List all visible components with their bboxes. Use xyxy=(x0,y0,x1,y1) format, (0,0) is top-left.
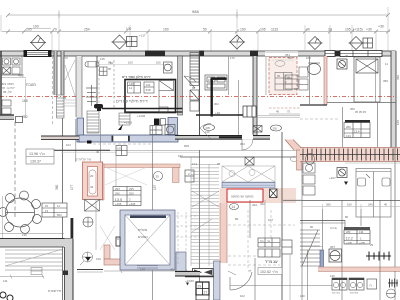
central void X hatch xyxy=(222,166,275,182)
svg-text:240: 240 xyxy=(368,203,373,207)
svg-text:304: 304 xyxy=(214,102,219,106)
corridor line y152 light xyxy=(61,151,200,153)
bathroom numbers xyxy=(129,82,151,92)
black arrow symbol xyxy=(118,124,123,130)
window W2 xyxy=(325,51,335,57)
svg-text:13.5: 13.5 xyxy=(115,197,124,202)
pink wall column center xyxy=(220,203,227,263)
small oval label corridor xyxy=(291,157,298,162)
bedroom circle fixture xyxy=(154,172,163,181)
elevation marker diamond D2 xyxy=(112,35,128,49)
balcony interior line xyxy=(272,59,294,61)
fixtures right cluster x285-300 xyxy=(285,67,308,90)
svg-text:33: 33 xyxy=(345,54,349,58)
interior vertical wall x97 xyxy=(96,56,98,108)
corridor line y150 right part xyxy=(110,150,302,152)
left interior wall vertical band B xyxy=(61,51,64,300)
svg-text:350: 350 xyxy=(350,107,355,111)
annex room side lines xyxy=(75,119,77,162)
level marker +13.89 xyxy=(185,279,194,286)
svg-text:פיר עליית יצ: פיר עליית יצ xyxy=(75,158,91,162)
svg-text:11: 11 xyxy=(385,62,388,66)
door gap in blue bottom wall xyxy=(113,136,128,142)
svg-text:מטבח: מטבח xyxy=(26,83,36,87)
svg-text:280: 280 xyxy=(346,230,351,234)
comb fixture bottom right edge xyxy=(388,279,398,288)
dark wall segment y136-139 left xyxy=(41,136,79,140)
door gap in wall y135 xyxy=(242,135,253,140)
svg-text:360: 360 xyxy=(55,184,59,190)
beds bottom right xyxy=(356,169,391,218)
dim bubble 14 xyxy=(230,204,239,210)
small dark box left of elevator xyxy=(116,237,120,246)
svg-text:134: 134 xyxy=(346,134,351,138)
elevation marker diamond D3 xyxy=(229,35,245,49)
svg-text:280: 280 xyxy=(326,203,331,207)
partition x238.5 xyxy=(238,80,240,135)
scattered small annotations xyxy=(22,54,388,298)
divider x301.5 upper xyxy=(309,56,311,105)
bedroom ceiling diagonals xyxy=(105,167,147,185)
toilet tank line xyxy=(308,62,320,64)
elevator shaft xyxy=(120,210,175,270)
stove dark tops xyxy=(332,278,347,280)
svg-text:307: 307 xyxy=(330,245,335,249)
right edge line lower xyxy=(394,148,396,267)
dimension line top 988 xyxy=(6,12,390,18)
area box 102.62 xyxy=(258,268,282,275)
svg-text:305: 305 xyxy=(273,127,278,131)
dark triangle marker xyxy=(344,182,348,186)
svg-text:177: 177 xyxy=(70,184,74,190)
svg-text:+30: +30 xyxy=(378,25,384,29)
box with circle fixture x164 xyxy=(164,62,173,73)
svg-text:140: 140 xyxy=(140,268,145,272)
wardrobe row bottom of bedroom xyxy=(113,187,141,206)
bedroom pink walls left room xyxy=(98,164,180,200)
faint X left of elevator xyxy=(100,226,115,250)
stove burner circles xyxy=(333,282,362,287)
safe room blue walls xyxy=(77,118,178,143)
svg-text:+205: +205 xyxy=(359,241,365,245)
antenna symbol xyxy=(86,85,97,106)
corridor line y150.5 xyxy=(40,149,110,151)
sink 2x2 in safe room xyxy=(150,126,162,135)
svg-text:29: 29 xyxy=(198,285,202,289)
elevator top door bar xyxy=(130,216,166,219)
vertical line x302 xyxy=(301,161,303,300)
svg-text:אכ: אכ xyxy=(248,269,251,273)
svg-text:65: 65 xyxy=(192,86,196,90)
svg-text:נוסעים: נוסעים xyxy=(138,235,148,239)
safe room interior ladder xyxy=(87,111,99,133)
svg-text:105: 105 xyxy=(345,28,351,32)
svg-text:250: 250 xyxy=(129,192,134,196)
svg-text:12.2: 12.2 xyxy=(346,237,353,241)
svg-text:252: 252 xyxy=(22,115,28,119)
washer column right rooms xyxy=(303,163,315,195)
vertical line x152.5 long xyxy=(152,125,154,210)
svg-text:+30: +30 xyxy=(366,28,372,32)
annex right line xyxy=(100,119,102,162)
small 2cell box right xyxy=(185,170,194,182)
svg-text:110: 110 xyxy=(205,130,210,134)
dark jamb in terrace wall xyxy=(63,271,68,276)
small box at 16,117 xyxy=(16,117,23,123)
svg-text:135: 135 xyxy=(100,57,105,61)
closet header bar right xyxy=(345,120,370,123)
divider x342.5 xyxy=(342,107,344,147)
pier dark P3 xyxy=(250,51,258,57)
svg-text:190: 190 xyxy=(240,28,246,32)
svg-text:168: 168 xyxy=(22,99,28,103)
svg-text:141: 141 xyxy=(146,83,151,87)
lavender pier right of elevator xyxy=(176,252,186,272)
svg-text:מעלית: מעלית xyxy=(138,228,148,232)
svg-text:351: 351 xyxy=(288,56,293,60)
wall x184-186 xyxy=(178,56,183,115)
wall x199-200 xyxy=(199,51,201,135)
divider x307.5 xyxy=(307,250,309,300)
ladder in left shaft xyxy=(57,95,65,118)
kitchen counters top-left xyxy=(1,56,22,75)
door swing corner x200 y128 xyxy=(200,123,211,139)
svg-text:408: 408 xyxy=(18,74,24,78)
small 2x2 box below sink xyxy=(100,67,108,76)
svg-text:170: 170 xyxy=(63,56,68,60)
svg-text:134: 134 xyxy=(359,230,364,234)
svg-text:100: 100 xyxy=(33,25,39,29)
toilet in bathroom xyxy=(159,81,174,114)
pink L wall near elevator xyxy=(104,245,121,265)
pink wall vertical x325 xyxy=(324,56,327,105)
elevation marker diamond D4 xyxy=(308,37,323,50)
stairs bottom right area xyxy=(300,230,320,266)
dashed gray vertical line x54 xyxy=(52,51,54,125)
svg-text:105: 105 xyxy=(117,147,122,151)
svg-text:+205: +205 xyxy=(129,202,136,206)
balcony left edge xyxy=(265,57,267,95)
svg-text:102: 102 xyxy=(240,294,245,298)
box with X fixture xyxy=(245,157,254,165)
right exterior wall xyxy=(391,51,396,148)
svg-text:+205: +205 xyxy=(115,202,122,206)
top-left corner boxes below wall xyxy=(2,100,11,114)
svg-text:105: 105 xyxy=(156,61,161,65)
svg-text:95: 95 xyxy=(217,162,221,166)
toilet ellipse right room xyxy=(308,64,321,75)
svg-text:14: 14 xyxy=(232,205,236,209)
svg-text:70: 70 xyxy=(53,28,57,32)
svg-text:13.4: 13.4 xyxy=(354,130,360,134)
box with circle and cross xyxy=(337,168,347,178)
wall y114.5-116.5 center xyxy=(196,114,256,116)
dark wall stub x71 xyxy=(71,218,74,238)
dimension line second row xyxy=(2,30,390,34)
stairs left of center bottom xyxy=(191,157,219,266)
svg-text:40: 40 xyxy=(306,28,310,32)
elevation marker diamond D5 xyxy=(349,37,364,50)
rotated dims xyxy=(55,184,157,190)
blue wall stub right xyxy=(320,250,324,270)
level box B2 xyxy=(363,38,373,48)
shower box with X xyxy=(85,200,100,212)
shaft boxes below xyxy=(190,90,199,111)
svg-text:170: 170 xyxy=(230,56,235,60)
svg-text:27: 27 xyxy=(204,291,208,295)
svg-text:55: 55 xyxy=(171,268,175,272)
divider x345 xyxy=(344,220,346,236)
svg-text:80: 80 xyxy=(345,215,349,219)
svg-text:171: 171 xyxy=(192,162,197,166)
corridor dashes right of elevator xyxy=(176,212,199,266)
dim labels row2 continued xyxy=(53,25,384,32)
bathroom inner fixtures table xyxy=(128,82,155,93)
sink stadium xyxy=(85,62,99,68)
svg-text:157: 157 xyxy=(178,154,183,158)
svg-text:+1132: +1132 xyxy=(137,114,146,118)
dashed vertical x99 xyxy=(98,60,100,110)
dim labels row2 xyxy=(26,25,39,32)
svg-text:290: 290 xyxy=(115,192,120,196)
terrace inner edge line xyxy=(0,233,64,235)
door arc lower left xyxy=(80,252,93,265)
svg-text:100: 100 xyxy=(300,294,305,298)
fixture box with circle x337 xyxy=(337,59,347,69)
svg-text:75: 75 xyxy=(287,110,291,114)
svg-text:988: 988 xyxy=(192,9,199,14)
svg-text:50: 50 xyxy=(203,28,207,32)
svg-text:139.37: 139.37 xyxy=(30,160,41,164)
svg-text:מר: מר xyxy=(267,240,270,243)
bathroom box walls xyxy=(125,80,176,113)
balcony oval label xyxy=(275,61,285,67)
blue wall bottom xyxy=(79,135,178,142)
wall y155-157 xyxy=(180,156,302,158)
svg-text:60: 60 xyxy=(310,225,314,229)
dashed corridor line y144 xyxy=(93,143,152,145)
svg-text:322: 322 xyxy=(252,203,257,207)
pier dark P4 xyxy=(335,51,340,57)
svg-text:חול: חול xyxy=(260,239,264,243)
bed top-right xyxy=(354,57,380,102)
pink balcony room rect xyxy=(269,58,297,95)
svg-text:05 05 05: 05 05 05 xyxy=(355,110,366,114)
bottom right fixtures row xyxy=(332,278,377,290)
door swing right of bathroom xyxy=(184,76,196,88)
pier dark P1 xyxy=(145,51,165,57)
svg-text:104: 104 xyxy=(66,143,71,147)
dashed ceiling grid lines xyxy=(228,210,295,268)
partition x228.5 xyxy=(228,56,230,95)
vertical line x199.5 lower xyxy=(199,150,201,300)
svg-text:139: 139 xyxy=(96,257,101,261)
dark wc blob xyxy=(94,104,103,111)
closet table right grid xyxy=(344,123,370,138)
left edge wall line xyxy=(0,51,2,115)
balcony bottom dim xyxy=(269,107,300,109)
svg-text:13: 13 xyxy=(45,209,49,213)
svg-text:139: 139 xyxy=(22,233,27,237)
svg-text:35: 35 xyxy=(156,175,160,179)
pier dark P2 xyxy=(199,51,204,57)
svg-text:+107: +107 xyxy=(329,176,336,180)
black triangles fixture bottom-left-center xyxy=(185,269,214,277)
svg-text:13.96 מ"ר: 13.96 מ"ר xyxy=(29,152,45,156)
svg-text:350: 350 xyxy=(396,75,400,80)
wall dark y271-276 center xyxy=(175,272,200,277)
dashed line y119 right xyxy=(300,118,340,120)
svg-text:65: 65 xyxy=(63,96,67,100)
svg-text:348: 348 xyxy=(146,88,151,92)
light fixture circle with cross xyxy=(83,217,93,227)
pink wall bottom right horizontal xyxy=(318,267,400,272)
svg-text:105: 105 xyxy=(396,120,400,125)
svg-text:140: 140 xyxy=(330,274,335,278)
thick black wall L x210 xyxy=(211,78,227,117)
svg-text:40: 40 xyxy=(384,203,388,207)
left dim line x25.5 xyxy=(25,79,27,118)
long line y285.5 xyxy=(230,285,342,287)
svg-text:254: 254 xyxy=(84,28,90,32)
svg-text:פיר/צנרת: פיר/צנרת xyxy=(48,289,61,293)
tall box end of wall xyxy=(243,106,256,117)
svg-text:58: 58 xyxy=(108,61,112,65)
blue wall left xyxy=(77,118,84,142)
svg-text:80: 80 xyxy=(235,217,239,221)
svg-text:דירת חילוף עם דים: דירת חילוף עם דים xyxy=(116,99,148,104)
comb symbol bottom right xyxy=(366,252,391,261)
stair ladder below bathroom xyxy=(119,113,130,125)
svg-text:107: 107 xyxy=(268,218,273,222)
dark X-box right of red box xyxy=(270,189,278,198)
svg-text:295: 295 xyxy=(129,187,134,191)
dashed property line left x15 xyxy=(14,122,16,218)
area label box 139.37 xyxy=(26,149,54,164)
room dim labels 58 100 105 xyxy=(108,61,161,65)
balcony edge thin xyxy=(265,51,298,56)
svg-text:322: 322 xyxy=(260,202,265,206)
balcony top rail line xyxy=(265,51,298,53)
svg-text:דירה חילון עמוד דים: דירה חילון עמוד דים xyxy=(122,75,151,79)
svg-text:111: 111 xyxy=(3,279,8,283)
red outlined box pergola xyxy=(220,188,297,203)
svg-text:40: 40 xyxy=(96,150,100,154)
door arc bottom center xyxy=(230,272,252,290)
svg-text:(+115): (+115) xyxy=(353,28,363,32)
svg-text:11: 11 xyxy=(57,204,60,208)
dim line y271 across xyxy=(104,269,196,273)
dim line 100 short xyxy=(26,27,51,29)
dark pier in wall y136 xyxy=(219,136,242,138)
bottom-left dim line xyxy=(0,275,44,279)
wall y105 right block xyxy=(300,104,327,106)
left notes text block xyxy=(1,82,15,94)
top exterior wall band xyxy=(0,51,396,56)
schedule table right header xyxy=(344,227,370,230)
misc horizontal light lines right mid xyxy=(283,163,400,209)
left interior wall vertical band A xyxy=(54,51,57,95)
wall y135-139 right part xyxy=(175,136,270,140)
svg-text:11: 11 xyxy=(129,86,132,90)
wall line y269.5 xyxy=(77,269,103,271)
vertical line x152.5 lower xyxy=(152,270,154,300)
door swing at wall gap xyxy=(242,139,253,150)
pink wall diagonal corner xyxy=(285,140,302,171)
svg-text:103: 103 xyxy=(306,56,311,60)
svg-text:293: 293 xyxy=(115,187,120,191)
svg-text:157: 157 xyxy=(153,184,157,190)
window W1 top-left xyxy=(24,51,51,57)
svg-text:100: 100 xyxy=(128,61,133,65)
svg-text:40: 40 xyxy=(276,110,280,114)
wall divider band x76-82 xyxy=(76,56,82,117)
left lower wall segments xyxy=(0,115,14,120)
misc verticals mid-bottom xyxy=(96,155,290,300)
louver lines below terrace wall xyxy=(5,250,63,275)
dark table bottom xyxy=(196,282,209,300)
wall x375 xyxy=(375,56,377,102)
elevation marker diamond D1 xyxy=(30,35,46,50)
kitchen dim line 408 xyxy=(1,77,26,79)
lavender wall below pink column xyxy=(214,261,221,300)
round dining table with chairs xyxy=(0,191,42,234)
svg-text:05: 05 xyxy=(287,76,291,80)
small box beside dark fixture xyxy=(161,119,166,126)
svg-text:102.62 מ"ר: 102.62 מ"ר xyxy=(260,270,278,274)
svg-text:190: 190 xyxy=(163,28,169,32)
sink unit left of dark pier xyxy=(205,75,227,90)
schedule table right grid xyxy=(344,230,370,244)
dark fixture box xyxy=(154,119,160,126)
blue beam band xyxy=(222,183,275,189)
room dim line y64.5 xyxy=(100,64,170,66)
svg-text:905: 905 xyxy=(184,144,189,148)
circle fixture bottom right xyxy=(387,289,396,298)
thick gray terrace wall L xyxy=(0,239,73,300)
svg-text:+117: +117 xyxy=(139,34,146,38)
second bath fixtures top (250-282) xyxy=(204,125,282,133)
wall y220-223 right xyxy=(300,221,345,224)
svg-text:+13.89: +13.89 xyxy=(185,279,194,283)
svg-text:105: 105 xyxy=(260,28,266,32)
svg-text:על- 05: על- 05 xyxy=(3,90,12,94)
svg-text:15: 15 xyxy=(45,204,49,208)
pink bathroom fixtures upper-left room xyxy=(83,162,103,200)
dim table box near table xyxy=(42,203,67,217)
bottom fixture tiny labels xyxy=(332,293,359,295)
svg-text:1132: 1132 xyxy=(271,28,278,32)
svg-text:44: 44 xyxy=(90,185,94,189)
vertical line x282 long xyxy=(281,132,283,300)
bottom-left dark plants xyxy=(0,292,13,300)
svg-text:20: 20 xyxy=(90,174,94,178)
divider x377.5 xyxy=(377,102,379,147)
blue wall right xyxy=(168,118,178,136)
svg-text:503: 503 xyxy=(57,213,62,217)
svg-text:301 302: 301 302 xyxy=(332,293,341,295)
red dashed datum line xyxy=(0,96,396,98)
svg-text:25: 25 xyxy=(370,243,374,247)
bedroom bottom wall y102.5 xyxy=(327,102,396,104)
svg-text:350: 350 xyxy=(383,79,388,83)
small black square xyxy=(87,141,92,144)
svg-text:מעקה עץ מעקה: מעקה עץ מעקה xyxy=(231,195,254,199)
svg-text:95: 95 xyxy=(108,67,112,71)
svg-text:+40: +40 xyxy=(215,111,220,115)
long pink wall band right with hatch xyxy=(300,148,400,162)
electrical panel cluster xyxy=(258,238,292,257)
